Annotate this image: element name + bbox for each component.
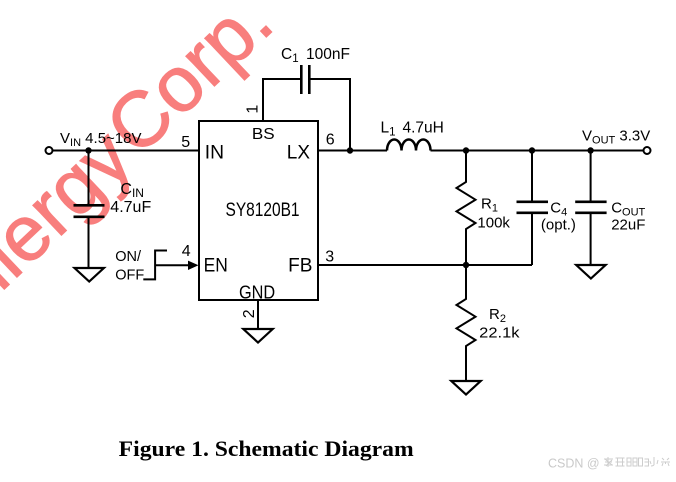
svg-text:BS: BS (252, 126, 275, 143)
node dot C4 top (529, 147, 535, 153)
svg-text:100nF: 100nF (306, 46, 350, 63)
pin 2 stub GND (257, 300, 259, 329)
resistor R2 (457, 265, 476, 381)
svg-text:SY8120B1: SY8120B1 (226, 200, 300, 221)
svg-text:2: 2 (241, 309, 258, 318)
wire CIN branch upper (88, 151, 90, 205)
capacitor C4 (531, 151, 533, 201)
ground IC (243, 329, 272, 343)
svg-text:4: 4 (182, 243, 191, 260)
pin 1 stub BS (262, 79, 264, 121)
arrowhead EN (188, 261, 199, 270)
svg-text:GND: GND (239, 283, 275, 303)
svg-text:22uF: 22uF (611, 217, 645, 234)
node dot VIN/CIN (85, 147, 91, 153)
node dot R1 top (463, 147, 469, 153)
wire LX pin to inductor (318, 150, 387, 152)
ground R2 (451, 381, 480, 395)
svg-text:(opt.): (opt.) (541, 217, 576, 234)
resistor R1 (457, 151, 476, 266)
wire VIN to IN pin (53, 150, 200, 152)
ON/OFF step symbol (143, 251, 167, 280)
node dot FB/R2 (463, 262, 469, 268)
wire EN arrow line (155, 264, 190, 266)
svg-text:LX: LX (287, 143, 311, 164)
wire C1 to LX node (311, 79, 351, 151)
output terminal (644, 147, 651, 154)
wire CIN lower (88, 218, 90, 268)
svg-text:EN: EN (204, 256, 228, 277)
svg-text:22.1k: 22.1k (479, 324, 520, 341)
wire BS to C1 (263, 79, 300, 80)
svg-text:ON/: ON/ (115, 249, 142, 265)
ground COUT (576, 265, 605, 279)
svg-text:5: 5 (181, 134, 190, 151)
capacitor COUT (590, 151, 592, 201)
watermark CSDN (548, 457, 600, 471)
svg-text:IN: IN (205, 143, 224, 164)
svg-text:4.7uH: 4.7uH (403, 119, 444, 136)
svg-text:OFF: OFF (115, 268, 144, 284)
op IC body SY8120B1 (199, 121, 318, 300)
ground CIN (75, 268, 104, 282)
capacitor CIN (74, 204, 105, 207)
capacitor C1 (300, 65, 303, 94)
wire FB line (318, 264, 532, 266)
wire output rail (431, 150, 644, 152)
node dot LX/C1 (347, 147, 353, 153)
svg-text:CSDN @: CSDN @ (548, 457, 600, 471)
svg-text:FB: FB (288, 256, 312, 277)
watermark Silergy Corp. (0, 0, 289, 341)
node dot VOUT (587, 147, 593, 153)
svg-text:3: 3 (325, 248, 334, 265)
svg-text:Figure 1. Schematic Diagram: Figure 1. Schematic Diagram (119, 436, 414, 461)
svg-text:100k: 100k (477, 214, 510, 231)
input terminal (46, 147, 53, 154)
svg-text:6: 6 (326, 132, 335, 149)
svg-text:4.7uF: 4.7uF (110, 199, 151, 216)
inductor L1 (387, 140, 431, 151)
svg-text:1: 1 (245, 105, 262, 114)
